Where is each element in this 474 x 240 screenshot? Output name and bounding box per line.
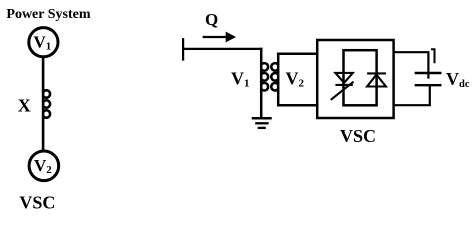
svg-text:VSC: VSC xyxy=(340,126,376,146)
ground xyxy=(252,118,272,128)
bus bar xyxy=(182,38,184,61)
source V2 xyxy=(29,151,59,181)
wire xyxy=(394,85,430,105)
svg-text:V2: V2 xyxy=(34,156,52,176)
tick mark xyxy=(431,49,435,63)
transformer secondary winding xyxy=(271,54,318,105)
svg-text:Vdc: Vdc xyxy=(446,69,470,90)
svg-text:VSC: VSC xyxy=(19,192,55,212)
svg-text:Q: Q xyxy=(205,10,218,29)
diode valve xyxy=(367,73,386,86)
transformer primary winding xyxy=(261,48,268,119)
capacitor Cdc xyxy=(415,73,442,85)
VSC converter box xyxy=(317,40,393,118)
wire xyxy=(394,52,429,78)
source V1 xyxy=(29,28,58,57)
svg-text:V1: V1 xyxy=(231,69,250,90)
arrow Q xyxy=(203,36,227,38)
inner loop xyxy=(344,50,377,105)
svg-text:V2: V2 xyxy=(286,69,305,90)
svg-text:Power System: Power System xyxy=(6,7,90,22)
wire xyxy=(42,57,45,150)
svg-text:X: X xyxy=(18,96,31,116)
wire xyxy=(183,48,262,50)
thyristor valve xyxy=(331,73,354,100)
svg-text:V1: V1 xyxy=(34,32,52,52)
inductor X xyxy=(43,90,50,117)
